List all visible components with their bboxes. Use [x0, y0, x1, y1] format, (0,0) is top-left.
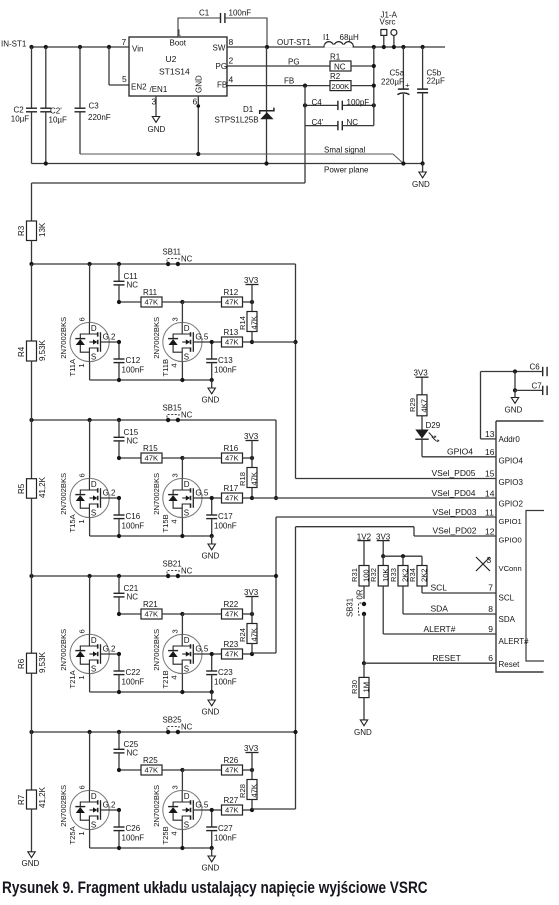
svg-text:R2: R2 — [330, 72, 341, 81]
svg-text:4: 4 — [170, 675, 179, 679]
svg-text:T15B: T15B — [161, 514, 170, 532]
capacitor C11 NC — [114, 264, 139, 302]
svg-text:C5a: C5a — [390, 69, 405, 78]
solder bridge SB15 NC — [163, 404, 193, 423]
svg-text:R13: R13 — [224, 328, 239, 337]
svg-text:FB: FB — [284, 77, 294, 86]
svg-text:100pF: 100pF — [347, 98, 370, 107]
svg-text:R11: R11 — [143, 288, 158, 297]
svg-text:FB: FB — [217, 81, 227, 90]
svg-text:47K: 47K — [225, 338, 239, 347]
ground — [202, 536, 220, 561]
svg-text:NC: NC — [181, 255, 193, 264]
svg-text:3: 3 — [171, 785, 180, 789]
svg-text:T15A: T15A — [68, 513, 77, 532]
transistor T25B 2N7002BKS — [152, 770, 212, 848]
svg-text:R6: R6 — [17, 658, 26, 669]
net VSel_PD05 — [296, 468, 497, 479]
svg-text:R32: R32 — [369, 568, 378, 582]
svg-text:7: 7 — [488, 583, 493, 593]
capacitor C7 — [513, 372, 547, 396]
resistor R15 47K — [117, 444, 185, 463]
svg-text:GPIO2: GPIO2 — [499, 500, 524, 509]
svg-text:G.2: G.2 — [103, 644, 116, 653]
ground symbol top right — [412, 164, 430, 190]
capacitor C27 100nF — [206, 808, 237, 848]
svg-text:EN2: EN2 — [131, 83, 147, 92]
resistor R12 47K — [182, 288, 254, 307]
svg-text:3: 3 — [171, 629, 180, 633]
svg-text:GND: GND — [412, 180, 430, 189]
svg-text:47K: 47K — [250, 628, 259, 642]
svg-text:2N7002BKS: 2N7002BKS — [59, 473, 68, 515]
svg-text:T11A: T11A — [68, 358, 77, 377]
svg-text:G.2: G.2 — [103, 332, 116, 341]
node drain rail block T21 — [29, 574, 276, 578]
svg-text:R27: R27 — [224, 796, 239, 805]
svg-text:D: D — [91, 480, 97, 489]
svg-text:C17: C17 — [218, 512, 233, 521]
svg-text:220µF: 220µF — [381, 77, 404, 86]
svg-text:C12: C12 — [126, 356, 141, 365]
svg-text:R14: R14 — [238, 316, 247, 330]
resistor R4 9,53K — [17, 264, 47, 420]
solder bridge SB25 NC — [163, 716, 193, 735]
svg-text:D: D — [184, 792, 190, 801]
IC pin labels — [499, 435, 530, 669]
transistor T15B 2N7002BKS — [152, 458, 212, 536]
ground — [202, 692, 220, 717]
node OUT-ST1 / SW output rail — [227, 38, 445, 49]
op-amp U1 / regulator U2 ST1S14 box — [129, 37, 227, 96]
svg-text:S: S — [184, 353, 189, 362]
svg-text:T21A: T21A — [68, 669, 77, 688]
svg-text:1: 1 — [77, 831, 86, 835]
svg-text:Boot: Boot — [170, 39, 187, 48]
svg-text:Reset: Reset — [499, 660, 521, 669]
svg-text:41,2K: 41,2K — [38, 476, 47, 498]
wire FB feedback riser — [304, 86, 306, 183]
pin 13 Addr0 wire — [481, 372, 497, 440]
svg-text:T25A: T25A — [68, 825, 77, 844]
capacitor C26 100nF — [114, 808, 145, 848]
resistor R33 2K2 — [389, 556, 410, 586]
svg-text:14: 14 — [485, 488, 495, 498]
svg-text:I1: I1 — [323, 33, 330, 42]
svg-text:G.5: G.5 — [195, 800, 208, 809]
power 3V3 — [244, 744, 259, 770]
svg-text:NC: NC — [181, 411, 193, 420]
wire block1 control column — [252, 264, 298, 479]
resistor R14 47K vertical — [238, 302, 259, 342]
resistor R25 47K — [117, 756, 185, 775]
capacitor C15 NC — [114, 420, 139, 458]
capacitor C17 100nF — [206, 496, 237, 536]
svg-text:Power plane: Power plane — [324, 166, 369, 175]
capacitor C16 100nF — [114, 496, 145, 536]
LED D29 — [415, 421, 440, 457]
svg-text:C2': C2' — [50, 107, 62, 116]
svg-text:6: 6 — [78, 317, 87, 321]
caption Rysunek 9 — [2, 879, 428, 897]
svg-text:2N7002BKS: 2N7002BKS — [152, 473, 161, 515]
resistor R11 47K — [117, 288, 185, 307]
svg-text:GND: GND — [22, 859, 40, 868]
svg-text:ALERT#: ALERT# — [424, 624, 456, 634]
svg-text:C6: C6 — [530, 362, 541, 371]
svg-text:SB21: SB21 — [163, 560, 182, 569]
svg-text:R1: R1 — [330, 53, 341, 62]
svg-text:R31: R31 — [350, 568, 359, 582]
svg-text:R12: R12 — [224, 288, 239, 297]
svg-text:VSel_PD03: VSel_PD03 — [433, 507, 477, 517]
svg-text:GPIO0: GPIO0 — [499, 536, 522, 545]
svg-text:47K: 47K — [225, 766, 239, 775]
resistor R27 47K — [212, 796, 254, 815]
svg-text:C27: C27 — [218, 824, 233, 833]
svg-text:C2: C2 — [14, 106, 25, 115]
resistor R31 100 — [350, 566, 371, 600]
net ALERT# — [383, 586, 496, 634]
svg-text:GND: GND — [194, 75, 203, 93]
svg-text:9,53K: 9,53K — [38, 651, 47, 673]
svg-text:10µF: 10µF — [11, 115, 30, 124]
svg-text:13: 13 — [485, 429, 495, 439]
solder bridge SB21 NC — [163, 560, 193, 579]
net VSel_PD02 — [296, 526, 497, 537]
svg-text:S: S — [184, 665, 189, 674]
svg-text:VSel_PD02: VSel_PD02 — [433, 526, 477, 536]
svg-text:GPIO4: GPIO4 — [499, 457, 524, 466]
wire block3 control column — [252, 517, 278, 653]
svg-text:R4: R4 — [17, 346, 26, 357]
svg-text:4: 4 — [170, 519, 179, 523]
connector J1-A Vsrc — [380, 11, 398, 48]
svg-text:1M: 1M — [362, 682, 371, 693]
resistor R21 47K — [117, 600, 185, 619]
svg-text:11: 11 — [485, 508, 494, 518]
node drain rail block T15 — [29, 418, 276, 422]
diode D1 STPS1L25B — [215, 47, 274, 164]
resistor R5 41,2K — [17, 420, 47, 576]
svg-text:R33: R33 — [389, 568, 398, 582]
svg-text:D: D — [91, 792, 97, 801]
svg-text:C22: C22 — [126, 668, 141, 677]
power 3V3 — [244, 588, 259, 614]
power 3V3 — [244, 276, 259, 302]
capacitor C22 100nF — [114, 652, 145, 692]
junction dots on output rail — [372, 45, 425, 49]
svg-text:NC: NC — [127, 749, 139, 758]
svg-text:8: 8 — [229, 37, 234, 47]
capacitor C23 100nF — [206, 652, 237, 692]
svg-text:16: 16 — [485, 447, 495, 457]
svg-text:S: S — [91, 821, 96, 830]
resistor R6 9,53K — [17, 576, 47, 732]
svg-text:T21B: T21B — [161, 670, 170, 688]
svg-text:3: 3 — [171, 473, 180, 477]
svg-text:100nF: 100nF — [122, 366, 145, 375]
capacitor C2' — [40, 47, 67, 164]
svg-text:NC: NC — [334, 63, 346, 72]
resistor R23 47K — [212, 640, 254, 659]
svg-text:NC: NC — [181, 723, 193, 732]
svg-text:D: D — [91, 636, 97, 645]
wire block2 control column — [274, 420, 278, 500]
svg-text:100nF: 100nF — [122, 834, 145, 843]
svg-text:2N7002BKS: 2N7002BKS — [152, 629, 161, 671]
svg-text:13K: 13K — [38, 222, 47, 237]
IC U3 PD controller — [496, 421, 544, 672]
svg-text:GND: GND — [202, 552, 220, 561]
svg-text:2N7002BKS: 2N7002BKS — [59, 317, 68, 359]
svg-text:1: 1 — [177, 28, 182, 38]
svg-text:47K: 47K — [225, 806, 239, 815]
svg-text:R25: R25 — [143, 756, 158, 765]
resistor R1 NC — [227, 53, 374, 72]
svg-text:OUT-ST1: OUT-ST1 — [277, 38, 311, 47]
svg-text:C23: C23 — [218, 668, 233, 677]
svg-text:GND: GND — [202, 864, 220, 873]
svg-text:3V3: 3V3 — [244, 588, 259, 597]
svg-text:G.5: G.5 — [195, 488, 208, 497]
svg-text:6: 6 — [488, 653, 493, 663]
svg-text:2K2: 2K2 — [420, 568, 429, 582]
svg-text:SB11: SB11 — [163, 248, 182, 257]
svg-text:4: 4 — [170, 831, 179, 835]
capacitor C25 NC — [114, 732, 139, 770]
svg-text:Addr0: Addr0 — [499, 435, 521, 444]
svg-text:T25B: T25B — [161, 826, 170, 844]
inductor I1 68µH — [323, 33, 359, 48]
svg-text:R23: R23 — [224, 640, 239, 649]
svg-text:R26: R26 — [224, 756, 239, 765]
svg-text:R15: R15 — [143, 444, 158, 453]
net SDA — [403, 586, 496, 614]
svg-text:D: D — [184, 480, 190, 489]
net RESET — [362, 653, 496, 666]
svg-text:S: S — [184, 821, 189, 830]
svg-text:4: 4 — [229, 75, 234, 85]
resistor R30 1M — [350, 663, 371, 720]
capacitor C12 100nF — [114, 340, 145, 380]
svg-text:C1: C1 — [199, 9, 210, 18]
net VSel_PD03 — [276, 507, 496, 518]
svg-text:2N7002BKS: 2N7002BKS — [152, 317, 161, 359]
svg-text:R7: R7 — [17, 794, 26, 805]
svg-text:+: + — [405, 81, 410, 90]
svg-text:47K: 47K — [145, 454, 159, 463]
transistor T21A 2N7002BKS — [59, 576, 119, 692]
svg-text:D: D — [184, 636, 190, 645]
svg-text:R24: R24 — [238, 628, 247, 642]
resistor R26 47K — [182, 756, 254, 775]
ground bottom left — [22, 852, 40, 868]
svg-text:VSel_PD05: VSel_PD05 — [432, 468, 476, 478]
svg-text:SCL: SCL — [499, 594, 515, 603]
svg-text:47K: 47K — [145, 298, 159, 307]
node drain rail block T11 — [29, 262, 295, 266]
resistor R13 47K — [212, 328, 254, 347]
svg-text:S: S — [91, 665, 96, 674]
svg-text:SW: SW — [213, 44, 226, 53]
svg-text:6: 6 — [78, 785, 87, 789]
svg-text:/EN1: /EN1 — [150, 85, 168, 94]
svg-text:SDA: SDA — [499, 615, 516, 624]
resistor R18 47K vertical — [238, 458, 259, 498]
resistor R3 13K — [17, 221, 47, 264]
net Smal signal — [80, 146, 403, 164]
svg-text:3V3: 3V3 — [244, 432, 259, 441]
resistor R24 47K vertical — [238, 614, 259, 654]
svg-text:ALERT#: ALERT# — [499, 637, 530, 646]
svg-text:C4: C4 — [312, 98, 323, 107]
svg-text:G.2: G.2 — [103, 800, 116, 809]
svg-text:R18: R18 — [238, 472, 247, 486]
svg-text:2N7002BKS: 2N7002BKS — [59, 629, 68, 671]
svg-text:G.5: G.5 — [195, 332, 208, 341]
net SCL — [422, 583, 496, 594]
wire block4 control column — [252, 527, 298, 809]
svg-text:VConn: VConn — [499, 564, 522, 573]
svg-text:R29: R29 — [408, 398, 417, 412]
svg-text:SDA: SDA — [431, 604, 449, 614]
ground under R30 — [354, 720, 372, 737]
svg-text:3V3: 3V3 — [244, 744, 259, 753]
regulator GND pin 3 symbol — [148, 96, 166, 134]
power 1V2 — [357, 533, 372, 566]
svg-text:D: D — [91, 324, 97, 333]
svg-text:1: 1 — [77, 675, 86, 679]
resistor R28 47K vertical — [238, 770, 259, 810]
svg-text:S: S — [184, 509, 189, 518]
svg-text:R22: R22 — [224, 600, 239, 609]
svg-text:GPIO1: GPIO1 — [499, 517, 522, 526]
svg-text:47K: 47K — [145, 610, 159, 619]
capacitor C1 100nF (Boot) — [178, 9, 267, 48]
svg-text:100nF: 100nF — [214, 366, 237, 375]
svg-text:NC: NC — [181, 567, 193, 576]
resistor R16 47K — [182, 444, 254, 463]
svg-text:G.2: G.2 — [103, 488, 116, 497]
wire FB to divider top — [32, 183, 306, 221]
svg-text:R3: R3 — [17, 225, 26, 236]
svg-text:47K: 47K — [250, 316, 259, 330]
resistor R29 4K7 — [408, 395, 429, 430]
node source rail — [90, 846, 214, 850]
svg-text:C16: C16 — [126, 512, 141, 521]
power 3V3 for LED — [414, 369, 429, 395]
svg-text:R34: R34 — [408, 568, 417, 582]
svg-text:SB31: SB31 — [346, 598, 355, 617]
wire right divider vertical — [372, 47, 376, 126]
ground — [202, 380, 220, 405]
svg-text:G.5: G.5 — [195, 644, 208, 653]
transistor T11A 2N7002BKS — [59, 264, 119, 380]
power 3V3 — [244, 432, 259, 458]
svg-text:220nF: 220nF — [88, 113, 111, 122]
svg-text:8: 8 — [488, 604, 493, 614]
IC inner section box — [526, 511, 544, 662]
svg-text:3V3: 3V3 — [414, 369, 429, 378]
resistor R7 41,2K — [17, 732, 47, 852]
node source rail — [90, 534, 214, 538]
svg-text:GPIO3: GPIO3 — [499, 478, 524, 487]
svg-text:PG: PG — [288, 58, 300, 67]
svg-text:100nF: 100nF — [122, 678, 145, 687]
node source rail — [90, 690, 214, 694]
svg-text:Vin: Vin — [132, 45, 143, 54]
svg-text:PG: PG — [216, 62, 228, 71]
svg-text:22µF: 22µF — [427, 77, 446, 86]
ground — [202, 848, 220, 873]
transistor T11B 2N7002BKS — [152, 302, 212, 380]
svg-text:6: 6 — [78, 629, 87, 633]
svg-text:2N7002BKS: 2N7002BKS — [152, 785, 161, 827]
svg-text:100nF: 100nF — [214, 522, 237, 531]
svg-text:2N7002BKS: 2N7002BKS — [59, 785, 68, 827]
svg-text:NC: NC — [127, 281, 139, 290]
pin numbers U2 — [122, 28, 234, 107]
node IN-ST1 — [1, 40, 129, 49]
svg-text:SB15: SB15 — [163, 404, 183, 413]
svg-text:6: 6 — [193, 97, 198, 107]
capacitor C21 NC — [114, 576, 139, 614]
svg-text:9: 9 — [488, 624, 493, 634]
svg-text:NC: NC — [127, 593, 139, 602]
capacitor C3 — [75, 47, 111, 154]
resistor R17 47K — [212, 484, 254, 503]
svg-text:SB25: SB25 — [163, 716, 183, 725]
svg-text:ST1S14: ST1S14 — [159, 67, 190, 77]
svg-text:GND: GND — [505, 406, 523, 415]
resistor R32 10K — [369, 556, 390, 586]
svg-text:R21: R21 — [143, 600, 158, 609]
svg-text:C13: C13 — [218, 356, 233, 365]
wire to EN2 pin 5 — [109, 47, 129, 85]
svg-text:Rysunek 9. Fragment układu ust: Rysunek 9. Fragment układu ustalający na… — [2, 879, 428, 897]
svg-text:47K: 47K — [225, 650, 239, 659]
svg-text:R5: R5 — [17, 483, 26, 494]
svg-text:1: 1 — [77, 363, 86, 367]
svg-text:U2: U2 — [166, 54, 177, 64]
svg-text:100nF: 100nF — [214, 834, 237, 843]
svg-text:Vsrc: Vsrc — [380, 18, 396, 27]
transistor T15A 2N7002BKS — [59, 420, 119, 536]
svg-text:7: 7 — [122, 37, 127, 47]
svg-text:15: 15 — [485, 469, 495, 479]
svg-text:C7: C7 — [532, 381, 543, 390]
svg-text:4: 4 — [170, 363, 179, 367]
svg-text:NC: NC — [347, 118, 359, 127]
svg-text:47K: 47K — [225, 298, 239, 307]
capacitor C6 — [481, 362, 548, 376]
svg-text:RESET: RESET — [433, 653, 461, 663]
svg-text:47K: 47K — [225, 494, 239, 503]
svg-text:100nF: 100nF — [122, 522, 145, 531]
svg-text:47K: 47K — [225, 454, 239, 463]
svg-text:4K7: 4K7 — [420, 399, 429, 413]
svg-text:0R: 0R — [356, 589, 365, 599]
svg-text:10µF: 10µF — [49, 116, 68, 125]
svg-text:9,53K: 9,53K — [38, 339, 47, 361]
solder bridge SB11 NC — [163, 248, 193, 267]
svg-text:2: 2 — [229, 56, 234, 66]
net Power plane — [32, 161, 425, 174]
ground near C6 C7 — [505, 390, 523, 414]
capacitor C5a 220µF — [381, 47, 410, 164]
svg-text:S: S — [91, 509, 96, 518]
